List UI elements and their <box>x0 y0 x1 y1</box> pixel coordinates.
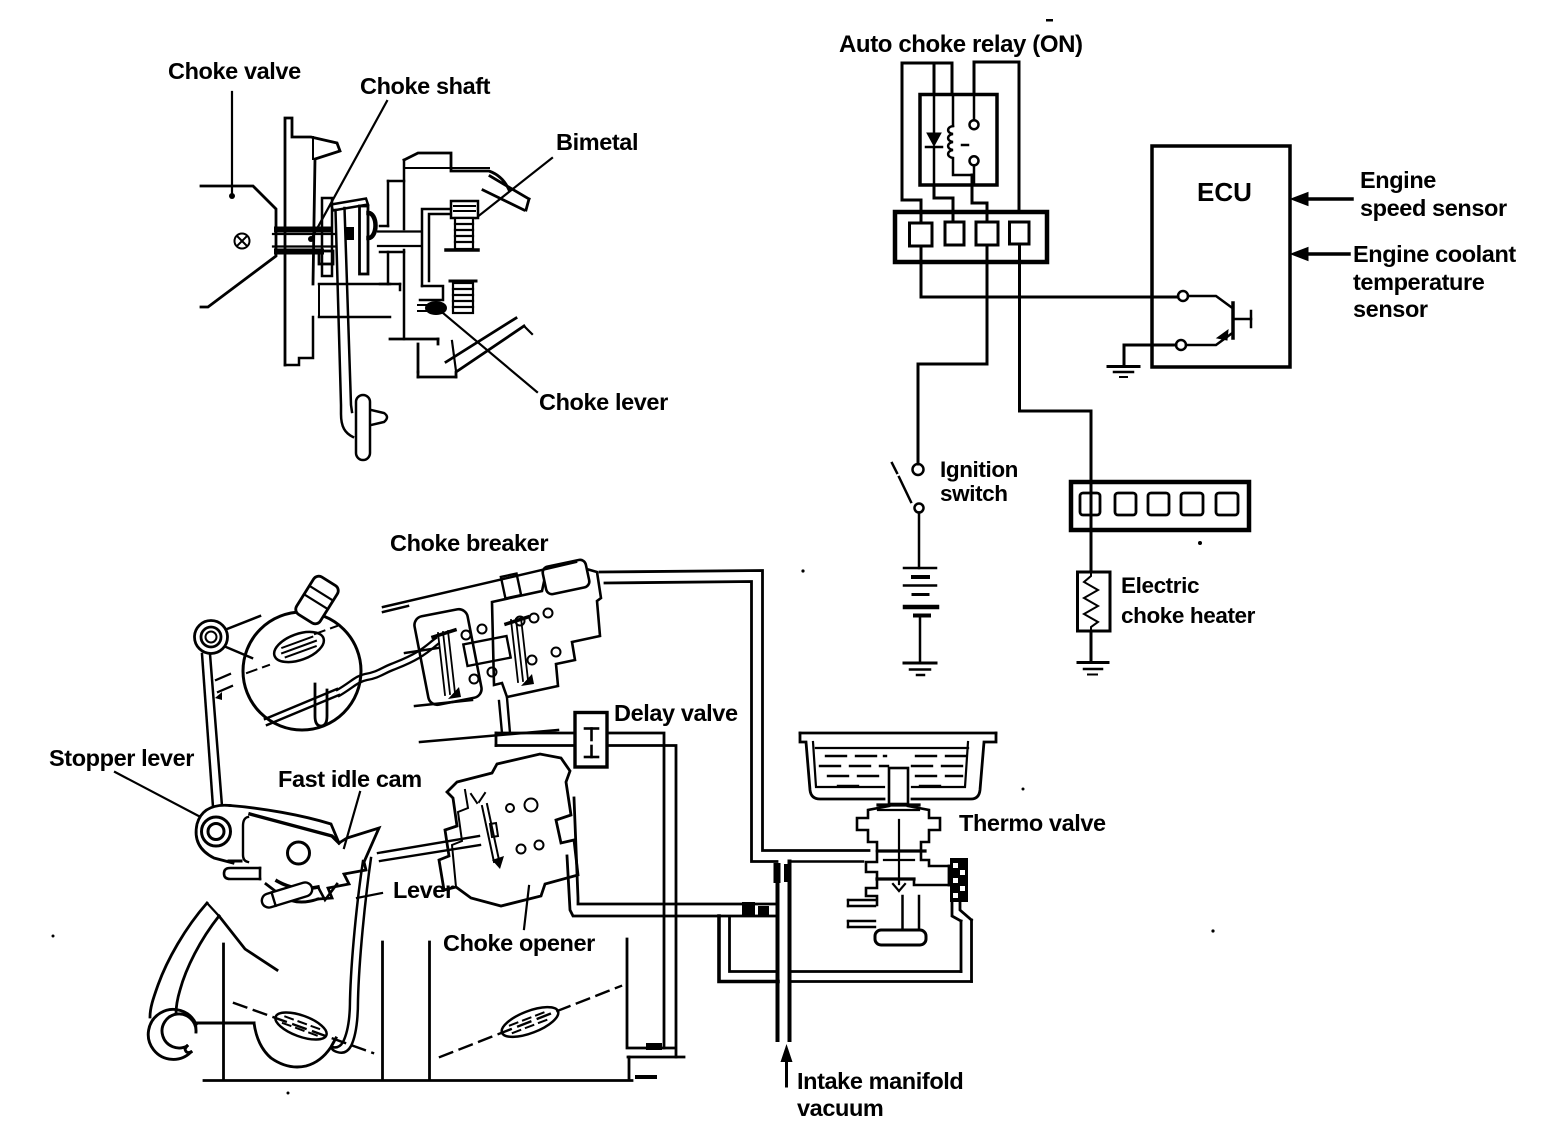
leader line bimetal <box>476 158 552 218</box>
label: Choke valve <box>168 58 301 84</box>
cam adjusting screw pin <box>260 881 314 910</box>
thermo valve stem <box>878 768 919 810</box>
leader line choke opener <box>524 886 529 929</box>
choke valve plate lower <box>277 249 321 255</box>
diaphragm lower rod <box>265 689 339 725</box>
manifold box <box>790 866 972 982</box>
rod cam to choke opener <box>378 836 480 861</box>
label: Engine coolant temperature sensor <box>1353 241 1516 322</box>
cam small dash <box>229 860 241 863</box>
wavy actuating rod <box>337 638 438 696</box>
choke shaft rod <box>273 232 421 247</box>
shaft clamp small box <box>319 251 333 264</box>
connector J1 pin 2 <box>945 222 964 245</box>
svg-text:speed sensor: speed sensor <box>1360 195 1507 221</box>
ground for ECU <box>1108 367 1139 378</box>
water surface line <box>816 747 968 749</box>
throttle plate 1 <box>272 1007 330 1045</box>
choke opener screw holes <box>506 799 544 854</box>
arrow engine coolant temp sensor input <box>1303 252 1349 256</box>
connector J1 pin 3 <box>976 222 998 245</box>
bimetal housing bottom outline <box>390 318 532 377</box>
choke link strip <box>336 208 354 437</box>
label: Choke lever <box>539 389 668 415</box>
label: Choke opener <box>443 930 595 956</box>
ECU box U1 <box>1152 146 1290 367</box>
tube delay valve to manifold <box>607 733 676 1057</box>
leader line stopper lever <box>115 772 210 822</box>
label: Delay valve <box>614 700 738 726</box>
throttle body walls <box>204 939 684 1081</box>
label: Thermo valve <box>959 810 1106 836</box>
wire resistor to ground <box>1090 631 1093 661</box>
svg-text:vacuum: vacuum <box>797 1095 883 1121</box>
throttle butterfly 2 dashed shaft <box>440 986 621 1057</box>
label: Engine speed sensor <box>1360 167 1507 221</box>
svg-text:Bimetal: Bimetal <box>556 129 638 155</box>
fast idle cam body <box>196 805 379 902</box>
water shading dashes <box>820 756 966 786</box>
svg-text:Auto choke relay (ON): Auto choke relay (ON) <box>839 31 1083 58</box>
link rod between rings <box>202 654 222 807</box>
diaphragm eye lens <box>270 626 328 668</box>
stopper lever upper ring <box>195 621 228 654</box>
choke breaker left diaphragm plate <box>413 608 483 707</box>
center boss between plates <box>463 636 510 666</box>
cam foot bar <box>224 868 260 879</box>
svg-text:Engine coolant: Engine coolant <box>1353 241 1516 267</box>
svg-text:Intake manifold: Intake manifold <box>797 1068 963 1094</box>
choke breaker top cap <box>542 559 591 596</box>
battery B1 <box>904 568 937 662</box>
intake manifold vacuum arrow <box>785 1058 788 1086</box>
diaphragm top clamp tab <box>293 574 340 626</box>
relay switch contacts S1 <box>962 95 979 186</box>
choke lever pivot (dark) <box>426 302 446 314</box>
label: Choke shaft <box>360 73 491 99</box>
vacuum tube choke breaker to thermo valve <box>600 571 869 862</box>
float bowl curve <box>254 1023 336 1067</box>
choke breaker screw holes <box>462 609 561 684</box>
throttle butterfly 1 dashed shaft <box>234 1003 373 1053</box>
svg-text:choke heater: choke heater <box>1121 603 1256 628</box>
throttle plate 2 <box>498 1001 562 1043</box>
wire pin4 to electric choke heater <box>1020 244 1092 482</box>
diaphragm U hook <box>315 684 327 726</box>
tube choke opener down and right <box>567 798 776 916</box>
wire heater connector to resistor <box>1090 482 1093 572</box>
stopper lever lower ring <box>202 817 231 846</box>
dashes near link rod <box>216 674 232 692</box>
shaft hub and nut <box>360 206 376 274</box>
choke valve plate upper <box>277 227 328 233</box>
diaphragm rod 2 with arrow <box>506 617 528 682</box>
label: Lever <box>393 877 454 903</box>
hook to bowl line <box>195 1024 197 1031</box>
port blob on barrel bottom <box>646 1043 662 1050</box>
bimetal adjusting cap <box>451 201 478 218</box>
inner bracket <box>420 209 476 300</box>
svg-text:Stopper lever: Stopper lever <box>49 745 194 771</box>
bimetal coil stack <box>446 218 478 250</box>
svg-text:Fast idle cam: Fast idle cam <box>278 766 422 792</box>
throttle body curved horn <box>150 903 277 1017</box>
svg-text:Choke shaft: Choke shaft <box>360 73 491 99</box>
choke opener unit outline <box>439 754 578 906</box>
wire pin1 to ECU transistor input <box>921 246 1178 297</box>
label: Bimetal <box>556 129 638 155</box>
wire pin3 to ignition switch <box>918 245 987 464</box>
neck lines wall to housing <box>285 284 390 365</box>
leader line choke lever <box>443 313 537 392</box>
link lower disc <box>356 395 370 460</box>
heater connector J2 body <box>1071 482 1249 530</box>
wire transistor lower pin to ground <box>1124 345 1176 364</box>
carburetor wall with top flange <box>285 118 340 365</box>
tube choke breaker to delay valve <box>496 733 575 746</box>
connector J1 body <box>895 212 1047 262</box>
manifold inner runner lines <box>848 900 875 927</box>
small box A left of manifold <box>719 916 778 982</box>
label: Auto choke relay (ON) <box>839 31 1083 58</box>
relay pin wires to connector <box>902 175 987 223</box>
svg-text:Choke valve: Choke valve <box>168 58 301 84</box>
diode D1 inside relay <box>926 95 942 186</box>
delay valve DV1 <box>575 713 607 768</box>
stub tubes to delay valve line <box>499 698 510 733</box>
scan speck dots <box>52 19 1215 1095</box>
leader line choke shaft <box>313 101 387 236</box>
dashed axis of diaphragm <box>247 626 337 673</box>
svg-text:Ignition: Ignition <box>940 457 1018 482</box>
svg-text:ECU: ECU <box>1197 177 1252 207</box>
svg-text:Choke breaker: Choke breaker <box>390 530 548 556</box>
bimetal housing left flange <box>380 160 404 339</box>
coolant cup <box>800 733 996 799</box>
venturi air horn outline <box>201 186 276 307</box>
lever strip <box>332 858 371 1053</box>
bimetal housing top outline <box>404 153 529 210</box>
ground for heater <box>1078 663 1108 675</box>
choke breaker mounting bracket diagonals <box>383 562 576 742</box>
thermo valve body <box>857 806 949 905</box>
trough <box>875 930 926 945</box>
label: Ignition switch <box>940 457 1018 506</box>
heater connector pin squares <box>1080 493 1238 515</box>
relay K1 outer right loop wiring <box>974 62 1019 212</box>
diaphragm rod 1 with arrow <box>433 630 455 695</box>
svg-text:Choke lever: Choke lever <box>539 389 668 415</box>
choke opener rod with arrow <box>471 793 499 862</box>
relay K1 outer left loop wiring <box>902 63 952 200</box>
svg-text:switch: switch <box>940 481 1008 506</box>
label: Intake manifold vacuum <box>797 1068 963 1121</box>
choke breaker diaphragm circle <box>243 612 361 730</box>
manifold box top inner edge <box>790 860 863 863</box>
relay K1 inner box <box>920 95 997 186</box>
connector J1 pin 4 <box>1010 222 1030 244</box>
lower bimetal hub <box>450 281 476 313</box>
svg-text:Delay valve: Delay valve <box>614 700 738 726</box>
connector J1 pin 1 <box>910 223 933 246</box>
thermo valve right port (hatched) <box>950 858 968 902</box>
label: ECU <box>1197 177 1252 207</box>
arm ring to diaphragm <box>226 616 260 658</box>
ground for battery <box>904 663 936 675</box>
label: Fast idle cam <box>278 766 422 792</box>
leader dash for lever <box>357 893 382 898</box>
label: Stopper lever <box>49 745 194 771</box>
label: Choke breaker <box>390 530 548 556</box>
choke breaker top tab <box>501 574 521 599</box>
svg-text:sensor: sensor <box>1353 296 1428 322</box>
link cone pin <box>371 410 387 425</box>
vacuum channel walls <box>776 865 780 1040</box>
svg-text:temperature: temperature <box>1353 269 1485 295</box>
svg-text:Choke opener: Choke opener <box>443 930 595 956</box>
svg-text:Engine: Engine <box>1360 167 1436 193</box>
port blobs on box A top <box>742 902 755 916</box>
arrow engine speed sensor input <box>1303 197 1352 201</box>
relay coil L1 <box>948 95 972 176</box>
shaft mounting plate <box>322 198 332 276</box>
svg-text:Electric: Electric <box>1121 573 1199 598</box>
ignition switch SW1 <box>892 463 924 568</box>
strip top tab <box>331 199 368 211</box>
shaft collar dark <box>345 227 354 240</box>
choke breaker right body <box>492 568 601 697</box>
port blobs in channel <box>774 863 781 883</box>
cam circle hole <box>288 842 310 864</box>
bottom spring hook <box>148 1009 196 1059</box>
leader line choke valve <box>231 92 233 193</box>
choke shaft end symbol circle-X <box>235 234 250 249</box>
leader line fast idle cam <box>344 792 360 848</box>
svg-text:Thermo valve: Thermo valve <box>959 810 1106 836</box>
resistor R1 electric choke heater element <box>1078 572 1111 631</box>
transistor Q1 inside ECU <box>1176 291 1251 350</box>
thermo valve outlet tube into trough <box>903 896 920 932</box>
label: Electric choke heater <box>1121 573 1256 628</box>
